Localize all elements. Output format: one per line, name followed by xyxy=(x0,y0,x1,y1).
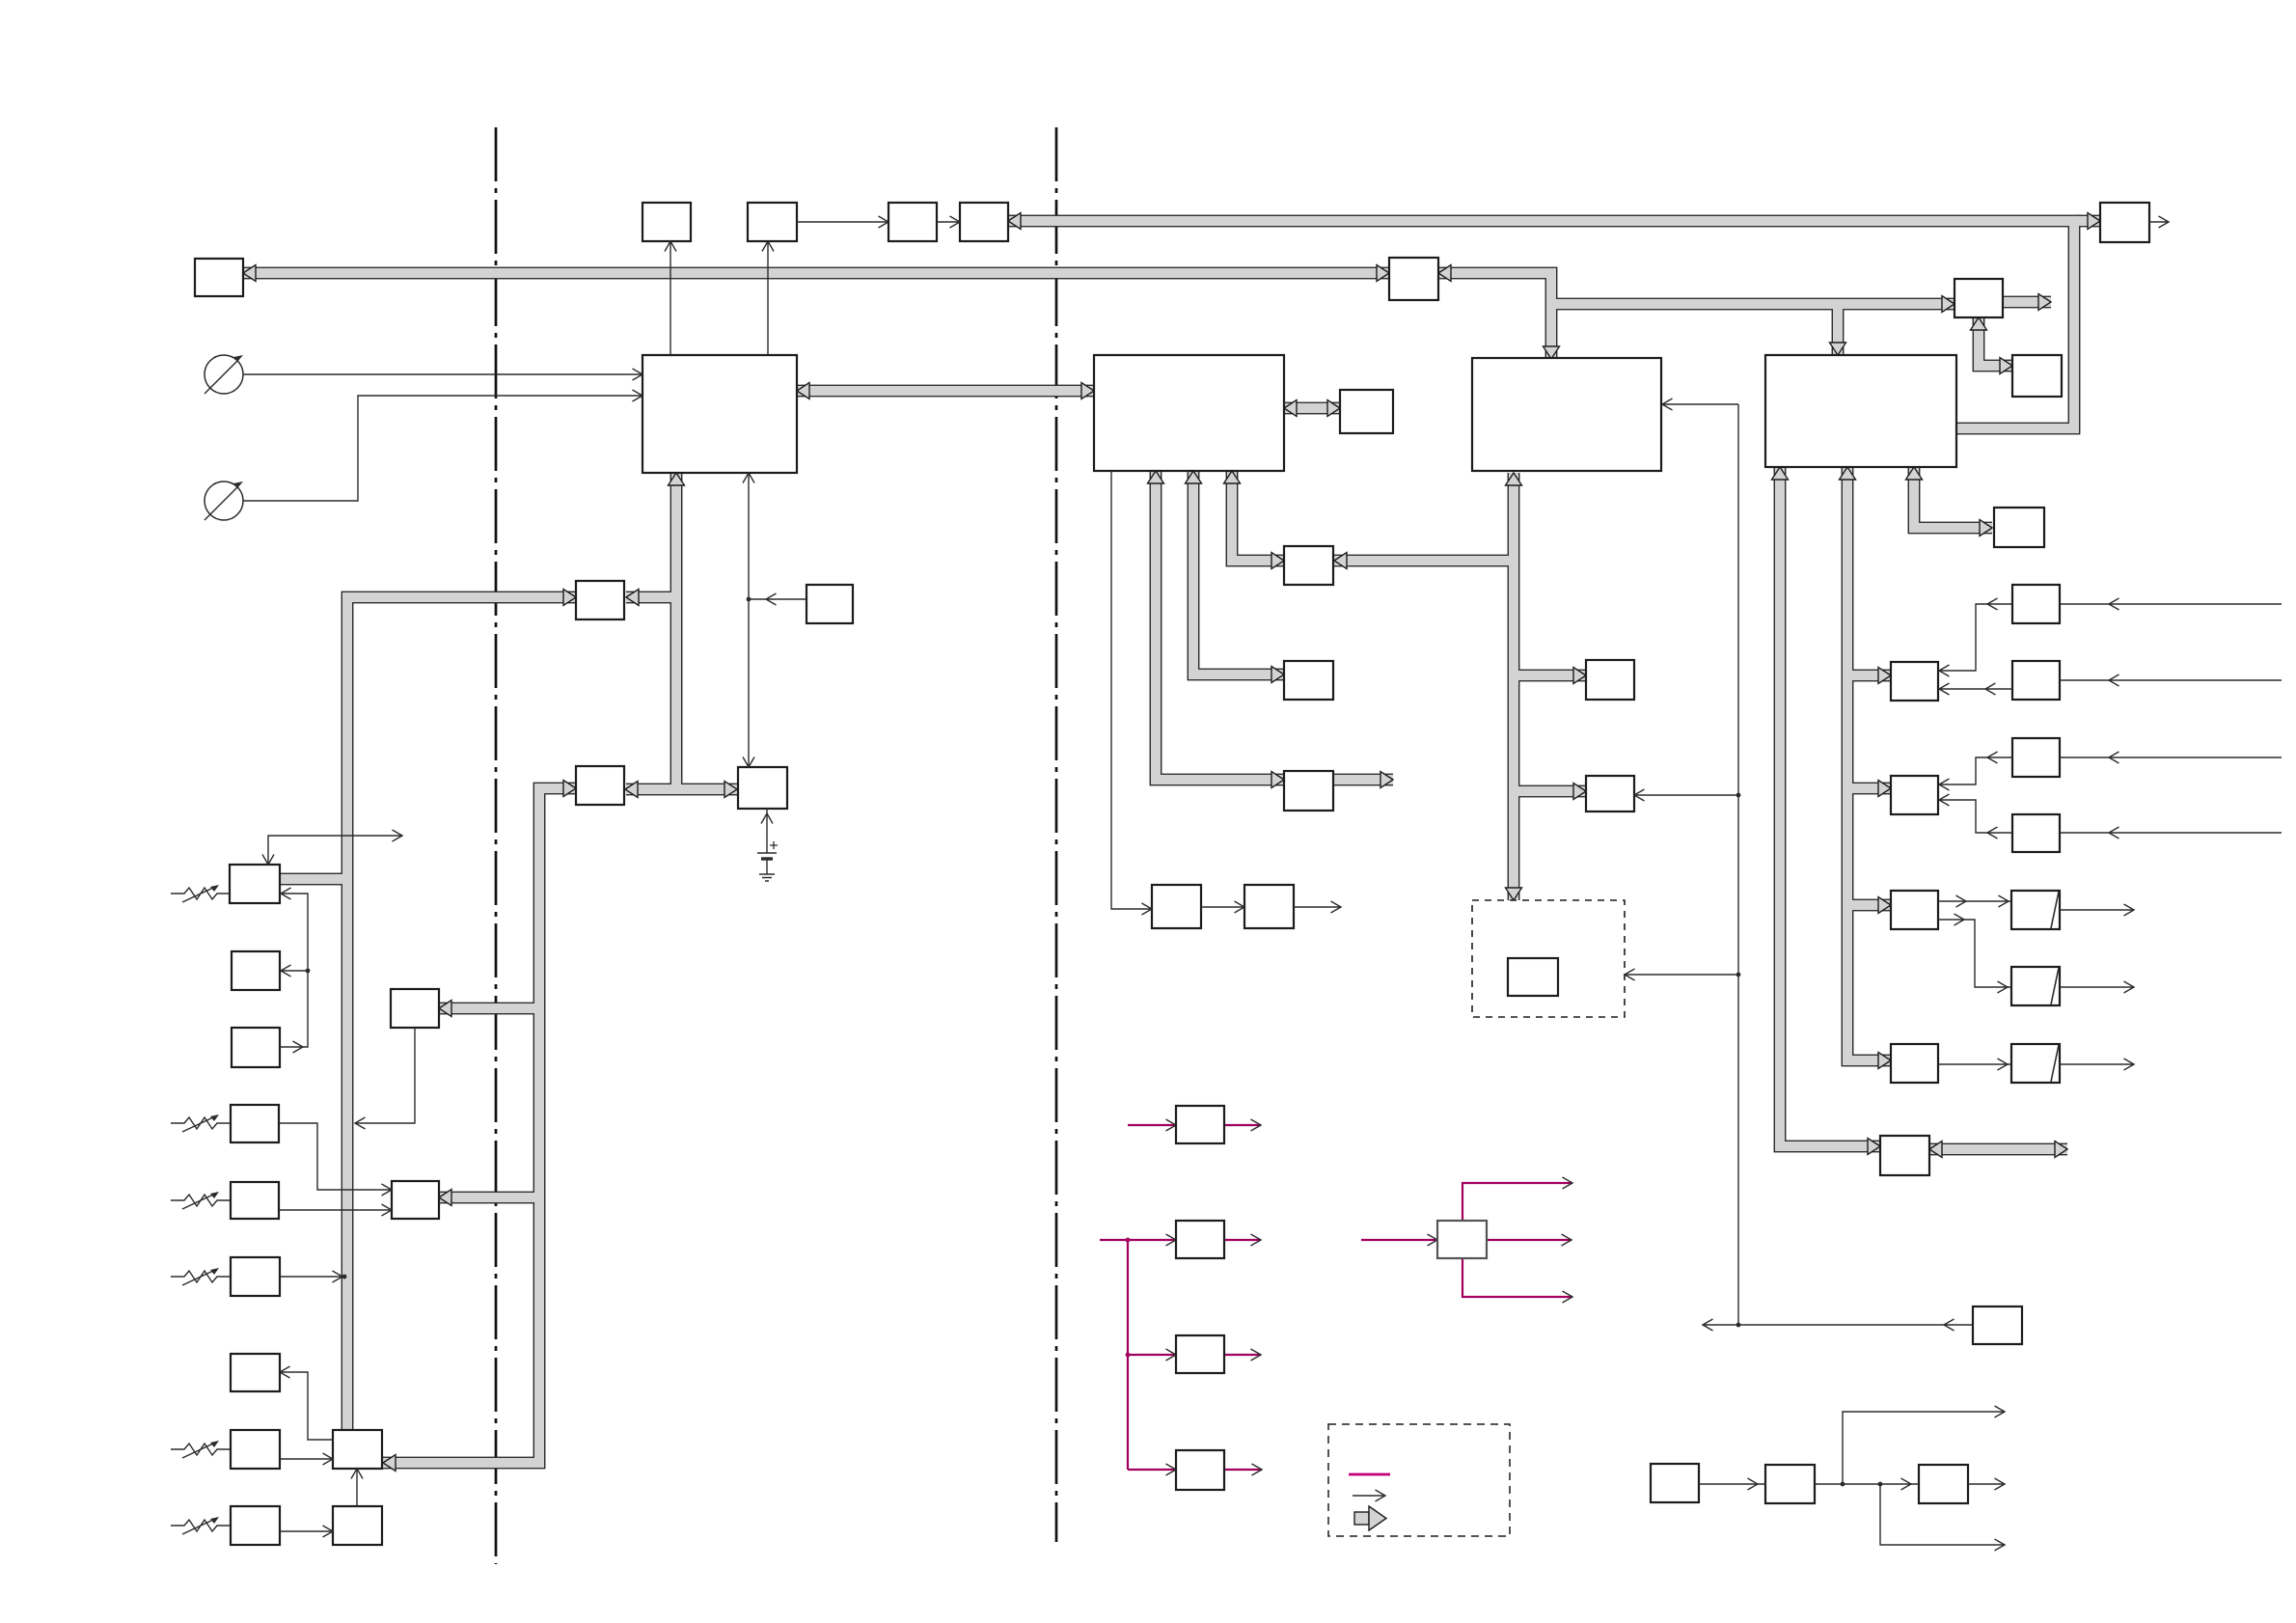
slash marks in lamp driver boxes xyxy=(2051,892,2059,928)
boundary dash-dot separator line 2 xyxy=(1055,127,1058,1542)
block: bus coupler P xyxy=(1880,1136,1929,1175)
purple wire: into P2 xyxy=(1100,1239,1176,1241)
wire: M to west bus xyxy=(355,1028,415,1123)
block: purple splitter xyxy=(1437,1221,1487,1258)
block: indicator A xyxy=(642,203,691,241)
wire: S2 output xyxy=(2060,986,2134,988)
block: gateway J xyxy=(1389,258,1438,300)
variable resistor sensor input xyxy=(171,1520,230,1531)
block: sensor conditioner 2 xyxy=(1244,885,1294,928)
block: switch input R4 xyxy=(2012,814,2060,852)
wire: K output xyxy=(2149,221,2169,223)
wire: interrupt to box3 xyxy=(1662,403,1738,405)
wire: interrupt to solenoid driver 2 xyxy=(1634,794,1738,796)
block: purple module P1 xyxy=(1176,1106,1224,1143)
variable resistor sensor input xyxy=(171,1444,230,1455)
wire: C to D xyxy=(937,221,960,223)
wire: S3 output xyxy=(2060,1063,2134,1065)
block: output stage Q1 xyxy=(1891,891,1938,929)
block: actuator driver 1 xyxy=(1284,546,1333,585)
purple wire: trunk xyxy=(1127,1240,1129,1470)
block: power module SB3 xyxy=(738,767,787,809)
purple wire: into P1 xyxy=(1128,1124,1176,1126)
block: converter M xyxy=(391,989,439,1028)
wire: interrupt trunk xyxy=(1737,404,1739,1325)
wire: external switch input y=705 xyxy=(2060,679,2282,681)
wire: branch down output xyxy=(1880,1484,2005,1545)
block: actuator driver 2 xyxy=(1284,661,1333,700)
block: lamp driver S1 (with slash) xyxy=(2011,891,2060,929)
block: sensor box L5 xyxy=(231,1257,280,1296)
block: switch input R1 xyxy=(2012,585,2060,623)
block: purple module P4 xyxy=(1176,1450,1224,1490)
block: sensor box L8 xyxy=(231,1506,280,1545)
wire: R3 to mux2 xyxy=(1939,757,2012,784)
block: purple module P3 xyxy=(1176,1335,1224,1373)
block: sensor conditioner 1 xyxy=(1152,885,1201,928)
block: output stage Q2 xyxy=(1891,1044,1938,1083)
gray data buses (fill) xyxy=(243,268,1389,278)
block: input mux 1 xyxy=(1891,662,1938,701)
block: sensor box L2 xyxy=(232,951,280,990)
purple wire: P3 output xyxy=(1224,1354,1261,1356)
legend box (dashed) xyxy=(1328,1424,1510,1536)
wire: B2 output xyxy=(1968,1483,2005,1485)
block: switch input R2 xyxy=(2012,661,2060,700)
block: converter M3 xyxy=(333,1506,382,1545)
legend: purple line sample xyxy=(1349,1473,1390,1476)
block: interface SB1 xyxy=(576,581,624,619)
block: module row2-right xyxy=(2012,355,2062,397)
wire: R4 to mux2 xyxy=(1939,800,2012,833)
block: input mux 2 xyxy=(1891,776,1938,814)
variable resistor sensor input xyxy=(171,1271,230,1282)
purple wire: into P4 xyxy=(1128,1469,1176,1471)
purple wire: splitter top out xyxy=(1462,1183,1572,1221)
wire: box2 to conditioner 1 xyxy=(1111,471,1152,909)
block: converter M2 xyxy=(333,1430,382,1469)
block: solenoid driver 1 xyxy=(1586,660,1634,700)
wire: M3 to M2 xyxy=(356,1469,358,1506)
wire: T0 to B1 xyxy=(1699,1483,1765,1485)
wire: clock module to junction xyxy=(749,598,806,600)
purple wire: P4 output xyxy=(1224,1469,1262,1471)
variable resistor sensor input xyxy=(171,1195,230,1206)
purple wire: splitter mid out xyxy=(1487,1239,1572,1241)
block: lamp driver S2 (with slash) xyxy=(2011,967,2060,1005)
wire: R2 to mux1 xyxy=(1939,688,2012,690)
block: optional module (dashed) xyxy=(1472,900,1625,1017)
block: lamp driver S3 (with slash) xyxy=(2011,1044,2060,1083)
block: relay D xyxy=(960,203,1008,241)
wire: L1 top link xyxy=(268,836,402,865)
block: purple module P2 xyxy=(1176,1221,1224,1258)
block: sensor box L4 xyxy=(231,1105,279,1142)
wire: R1 to mux1 xyxy=(1939,604,2012,671)
wire: interrupt source W output xyxy=(1703,1324,1973,1326)
wire: L4 to M1 xyxy=(279,1123,392,1190)
sensor: rotary potentiometer symbol 1 xyxy=(205,355,243,394)
wire: Q1 to S2 xyxy=(1938,920,2011,987)
wire: box1 to indicator B xyxy=(767,241,769,355)
block: memory F xyxy=(1340,390,1393,433)
block: transmission control unit (big box 3) xyxy=(1472,358,1661,471)
wire: branch to L2 xyxy=(281,970,308,972)
block: solenoid driver 2 xyxy=(1586,776,1634,811)
block: interface SB2 xyxy=(576,766,624,805)
block: inner option box xyxy=(1508,958,1558,996)
wire: box1 to indicator A xyxy=(670,241,671,355)
wire: external switch input y=626 xyxy=(2060,603,2282,605)
wire: branch up output xyxy=(1843,1412,2005,1484)
block: clock module xyxy=(806,585,853,623)
wire: B1 to B2 xyxy=(1815,1483,1919,1485)
block: chain B1 xyxy=(1765,1465,1815,1503)
purple wire: P1 output xyxy=(1224,1124,1261,1126)
wire: M2 to L7 xyxy=(280,1372,333,1440)
block: switch input R3 xyxy=(2012,738,2060,777)
wire: Q2 to S3 xyxy=(1938,1063,2011,1065)
block: relay C xyxy=(888,203,937,241)
wire: pot1 to box1 xyxy=(243,373,642,375)
wire: L5b to M1 xyxy=(279,1209,392,1211)
wire: conditioner2 output xyxy=(1294,906,1341,908)
gray data buses (outlines) xyxy=(243,267,1389,280)
wire: B to C xyxy=(797,221,888,223)
block: engine control unit (big box 2) xyxy=(1094,355,1284,471)
wire: Q1 to S1 xyxy=(1938,900,2011,902)
block: sensor box L5b xyxy=(231,1182,279,1219)
legend: block arrow sample xyxy=(1354,1512,1369,1525)
bus arrowheads xyxy=(243,265,256,282)
block: interrupt source W xyxy=(1973,1307,2022,1344)
legend: thin arrow sample xyxy=(1353,1495,1383,1497)
block: instrument cluster ECU (big box 1) xyxy=(642,355,797,473)
block: converter M1 xyxy=(392,1181,439,1219)
block: diagnostics module xyxy=(1994,508,2044,547)
wire: L8 to M3 xyxy=(280,1530,333,1532)
wire: external switch input y=785 xyxy=(2060,756,2282,758)
purple wire: into splitter xyxy=(1361,1239,1437,1241)
wire: L6 to M2 xyxy=(280,1458,333,1460)
wire: L5 to west bus xyxy=(280,1276,342,1278)
variable resistor sensor input xyxy=(171,888,230,899)
wire: conditioner1 to conditioner2 xyxy=(1201,906,1244,908)
wire: pot2 to box1 xyxy=(243,396,642,501)
wire: battery to power module xyxy=(766,809,768,853)
wire: battery to ground xyxy=(766,860,768,874)
block: actuator driver 3 xyxy=(1284,771,1333,811)
variable resistor sensor input xyxy=(171,1117,230,1129)
block: display unit top-left xyxy=(195,259,243,296)
block: sensor box L3 xyxy=(232,1028,280,1067)
block: chain B2 xyxy=(1919,1465,1968,1503)
sensor: rotary potentiometer symbol 2 xyxy=(205,481,243,520)
block: sensor box L7 xyxy=(231,1354,280,1391)
wire: interrupt to dashed module xyxy=(1625,974,1738,976)
purple wire: into P3 xyxy=(1128,1354,1176,1356)
block: chain T0 xyxy=(1651,1464,1699,1502)
block: body control unit (big box 4) xyxy=(1765,355,1956,467)
wire: box1 to power module (bidirectional) xyxy=(748,473,750,767)
purple wire: splitter bottom out xyxy=(1462,1258,1572,1297)
wire: external switch input y=863 xyxy=(2060,832,2282,834)
block: sensor box L6 xyxy=(231,1430,280,1469)
wire: L3 to L1 xyxy=(280,894,308,1047)
block: module row2 xyxy=(1954,279,2003,317)
block: output driver K xyxy=(2100,203,2149,242)
purple wire: P2 output xyxy=(1224,1239,1261,1241)
boundary dash-dot separator line 1 xyxy=(495,127,498,1564)
block: indicator B xyxy=(748,203,797,241)
ground symbol xyxy=(759,874,775,881)
wire: S1 output xyxy=(2060,909,2134,911)
block: sensor box L1 xyxy=(230,865,280,903)
